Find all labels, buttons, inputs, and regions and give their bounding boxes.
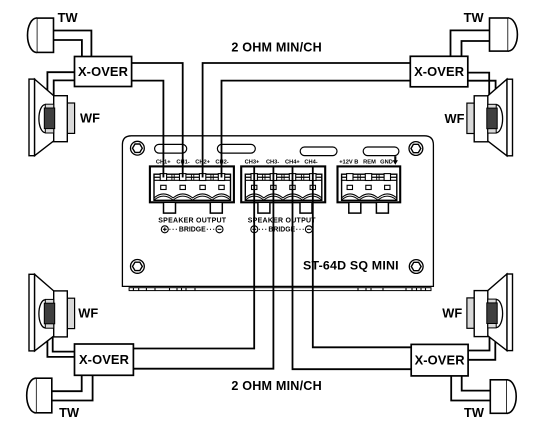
amplifier bottom mounting flange [129,288,431,291]
wire TL crossover to CH1- [132,63,183,178]
svg-text:WF: WF [442,305,462,320]
svg-text:TW: TW [58,10,79,25]
vent slot 2 [217,144,255,153]
svg-text:+12V B: +12V B [339,159,358,165]
terminal labels CH1+ CH1- CH2+ CH2- [156,159,229,165]
svg-text:TW: TW [464,405,485,420]
wire BR crossover to woofer - [468,342,495,360]
amplifier ST-64D SQ MINI chassis [122,136,433,287]
chassis screw top-left [131,141,145,155]
wire TR crossover to CH2+ [203,63,411,178]
vent slot 4 [363,147,399,156]
tweeter top-left [28,18,54,52]
crossover box top-left [75,57,132,87]
tweeter bottom-right [490,380,516,414]
wire TR crossover to woofer + [468,73,489,97]
svg-text:CH4-: CH4- [304,159,317,165]
wire TR crossover to CH2- [222,81,411,178]
svg-text:BRIDGE: BRIDGE [268,227,295,234]
wire BL crossover to woofer + [53,336,75,352]
svg-text:SPEAKER OUTPUT: SPEAKER OUTPUT [248,217,317,224]
svg-text:2 OHM MIN/CH: 2 OHM MIN/CH [231,379,322,393]
svg-text:TW: TW [464,10,485,25]
svg-text:GND: GND [380,159,393,165]
svg-text:REM: REM [363,159,376,165]
SPEAKER OUTPUT / BRIDGE label block 1 [158,217,227,233]
chassis screw bottom-left [131,260,145,274]
svg-text:TW: TW [59,405,80,420]
GND down arrow [394,156,396,161]
wire BL crossover to tweeter + [52,375,82,391]
svg-text:X-OVER: X-OVER [79,352,130,367]
svg-text:X-OVER: X-OVER [78,64,129,79]
wire TL tweeter + to crossover [54,31,92,57]
woofer top-left [29,79,75,156]
wire BL crossover to tweeter - [52,375,93,400]
terminal labels CH3+ CH3- CH4+ CH4- [245,159,318,165]
svg-text:ST-64D SQ MINI: ST-64D SQ MINI [303,258,399,272]
woofer top-right [467,79,513,156]
power labels +12V B REM GND [339,159,393,165]
woofer bottom-left [29,274,75,351]
woofer bottom-right [467,274,513,351]
svg-text:X-OVER: X-OVER [414,64,465,79]
wire TR tweeter + to crossover [451,30,490,56]
wire TR crossover to woofer - [468,81,496,94]
chassis screw top-right [409,142,423,156]
wire TL woofer + to crossover [47,72,74,91]
tweeter bottom-left [27,378,52,413]
SPEAKER OUTPUT / BRIDGE label block 2 [248,217,317,233]
wire TL tweeter - to crossover [54,40,82,57]
vent slot 1 [155,144,187,153]
speaker output terminal block CH1/CH2 [150,166,234,213]
svg-text:CH3-: CH3- [266,159,279,165]
wire BL crossover to woofer - [47,340,74,357]
wire BR crossover to tweeter + [462,376,491,391]
wire CH3+ to BL crossover [133,167,254,349]
crossover box bottom-right [411,344,468,376]
vent slot 3 [300,147,337,156]
crossover box bottom-left [75,344,134,375]
svg-text:WF: WF [80,111,100,126]
speaker output terminal block CH3/CH4 [241,166,325,213]
wire BR crossover to tweeter - [451,376,490,401]
power terminal block +12V/REM/GND [338,166,401,213]
svg-text:CH3+: CH3+ [245,159,260,165]
svg-text:BRIDGE: BRIDGE [179,227,206,234]
wire CH4- to BR crossover [313,167,411,347]
wire TL crossover to CH1+ [132,81,164,178]
svg-text:SPEAKER OUTPUT: SPEAKER OUTPUT [158,217,227,224]
wire TL crossover to woofer - [54,80,75,96]
svg-text:WF: WF [78,305,98,320]
svg-text:X-OVER: X-OVER [415,353,466,368]
wire CH3- to BL crossover [133,167,273,369]
svg-text:CH4+: CH4+ [285,159,300,165]
wire CH4+ to BR crossover [293,167,412,369]
crossover box top-right [410,56,468,87]
chassis screw bottom-right [409,260,423,274]
svg-text:2 OHM MIN/CH: 2 OHM MIN/CH [231,40,322,54]
svg-text:WF: WF [445,111,465,126]
wire BR crossover to woofer + [468,336,489,351]
wire TR tweeter - to crossover [462,41,490,56]
tweeter top-right [490,18,518,51]
